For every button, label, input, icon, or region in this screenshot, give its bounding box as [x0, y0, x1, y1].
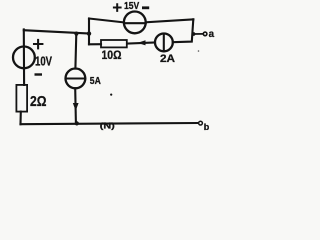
svg-text:a: a	[209, 29, 215, 40]
svg-text:10Ω: 10Ω	[102, 50, 122, 62]
svg-text:2A: 2A	[160, 53, 175, 65]
svg-text:2Ω: 2Ω	[30, 94, 47, 110]
svg-text:15V: 15V	[124, 1, 139, 12]
svg-text:5A: 5A	[90, 76, 102, 87]
svg-text:10V: 10V	[35, 53, 52, 68]
svg-text:b: b	[204, 122, 210, 132]
svg-text:(N): (N)	[100, 120, 115, 130]
